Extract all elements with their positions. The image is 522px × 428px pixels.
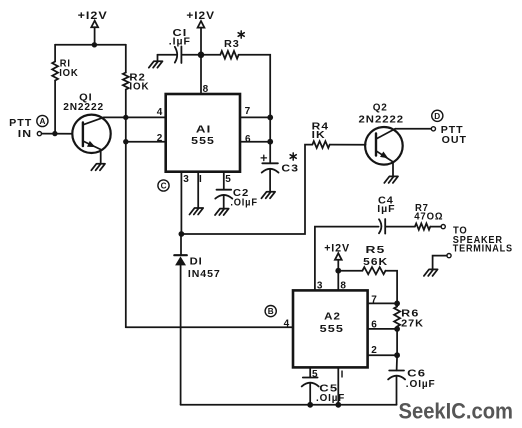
wire pin6 to pin2 rail [396,329,398,355]
label TO SPEAKER TERMINALS [453,225,513,254]
node junction R2/collector [123,115,128,120]
wire +12V rail top-left [55,44,126,46]
svg-text:2: 2 [157,133,163,144]
node junction pin6/R6 [394,326,400,332]
power +12V supply 3 arrow [335,253,342,260]
wire speaker ground terminal [433,256,447,270]
wire R5 to pin 7 rail [386,271,398,304]
terminal open circle speaker ground [447,254,451,258]
wire A1 pin 1 to ground [197,173,199,208]
capacitor C6 [388,371,405,380]
node junction pin7/R5/R6 [394,301,400,307]
ground C1 left [149,55,163,68]
resistor R1 [52,45,58,134]
wire A2 pin 2 [368,354,398,356]
svg-text:.OIµF: .OIµF [316,393,345,404]
resistor R1 value label [59,59,78,79]
resistor R6 value label [401,308,424,329]
svg-text:IOK: IOK [59,68,78,79]
power +12V supply 2 arrow [198,21,205,28]
ground Q2 emitter [384,176,398,183]
svg-text:I: I [199,174,202,185]
svg-text:C3: C3 [281,163,299,174]
ground Q1 emitter [91,164,105,171]
svg-text:.OIµF: .OIµF [406,379,436,390]
wire A2 pin3 riser to C4 [315,227,379,291]
svg-text:D: D [434,112,440,121]
svg-text:.OIµF: .OIµF [230,197,257,208]
svg-text:27K: 27K [401,319,424,330]
svg-text:IN: IN [18,129,32,140]
capacitor C5 value label [316,383,345,404]
transistor Q1 label [63,92,104,113]
resistor R4 value label [312,121,329,141]
power +12V supply 2 label [186,10,215,22]
node C circled letter [158,180,169,191]
wire C1 to pin8 node [181,54,220,56]
svg-text:+I2V: +I2V [324,242,350,254]
label PTT IN [9,118,32,140]
wire C2 to ground [223,195,225,208]
wire +12V stem 1 [94,27,96,45]
svg-text:7: 7 [245,106,251,117]
svg-text:.IµF: .IµF [169,37,191,48]
svg-text:OUT: OUT [442,135,467,146]
label PTT OUT [441,125,467,146]
svg-text:8: 8 [203,84,209,95]
wire C5 to bottom rail [309,383,311,405]
svg-text:R3: R3 [224,39,240,50]
power +12V supply 3 label [324,242,350,254]
resistor R4 [312,141,329,148]
node junction pin1/bottom rail [335,402,341,408]
transistor Q2 label [359,102,405,125]
capacitor C3 electrolytic [261,155,278,172]
wire A1 pin 8 [200,55,202,93]
resistor R7 value label [414,203,443,223]
op-amp U1: IC A1 555 box [166,94,240,172]
resistor R5 value label [363,245,388,268]
diode D1 value label [188,256,221,279]
node junction R2/pin2 [123,139,128,144]
svg-text:R5: R5 [366,245,386,256]
resistor R2 [123,45,129,328]
svg-text:IµF: IµF [377,204,395,215]
node junction pin2/C6 [394,352,400,358]
wire R3 to right rail [239,55,271,163]
svg-text:56K: 56K [363,257,388,268]
svg-text:TERMINALS: TERMINALS [453,244,513,255]
wire R5 left lead [338,270,362,272]
svg-text:3: 3 [183,174,189,185]
ground A1 pin 1 [190,208,204,215]
svg-text:555: 555 [320,324,344,335]
wire C4 to R7 [385,226,415,228]
node A terminal PTT IN [37,115,48,126]
resistor R3 [220,51,238,59]
capacitor C3 label [281,153,299,174]
node junction R1/base wire [52,131,57,136]
svg-text:Q2: Q2 [373,102,388,113]
wire A1 pin 7 [241,116,270,118]
wire +12V stem 3 to A2 pin 8 [337,260,339,291]
ground C3 [261,192,275,199]
IC A2 designator [320,312,344,335]
capacitor C4 [379,219,385,234]
IC A1 designator [191,125,215,147]
wire A2 pin 4 from R2 line [126,326,293,328]
svg-text:A: A [40,117,46,126]
svg-text:555: 555 [191,136,215,147]
wire A1 pin 6 [241,141,270,143]
wire C6 to bottom rail [396,376,398,405]
timer IC A2 555 box [293,290,368,367]
capacitor C6 value label [406,369,436,391]
transistor Q1 2N2222 [72,115,110,153]
node junction pin3/D1 [179,231,185,237]
wire bottom rail [181,404,397,406]
svg-text:47OΩ: 47OΩ [414,212,443,223]
svg-text:PTT: PTT [9,118,32,129]
capacitor C1 [175,46,182,63]
node junction C5/bottom rail [307,402,313,408]
svg-text:2N2222: 2N2222 [359,114,405,125]
svg-text:6: 6 [245,134,251,145]
node D circled letter [432,110,443,121]
svg-text:3: 3 [317,280,323,291]
wire pin2 junction to C6 [396,355,399,370]
wire pin3 junction to R4 riser [181,145,312,234]
svg-text:+I2V: +I2V [78,10,108,22]
node junction pin7/rail [267,115,273,121]
capacitor C5 [302,378,319,387]
capacitor C2 value label [230,188,257,208]
svg-text:DI: DI [190,256,203,267]
terminal open circle speaker hot [441,225,445,229]
capacitor C4 value label [377,195,395,214]
wire R4 to Q2 base [330,144,366,146]
resistor R5 [362,267,385,274]
wire C3 to ground [269,169,271,191]
resistor R7 [415,223,430,229]
svg-text:PTT: PTT [441,125,464,136]
capacitor C2 [215,190,232,199]
wire +12V stem 2 [200,28,202,55]
svg-text:IN457: IN457 [188,269,221,280]
svg-text:5: 5 [225,174,231,185]
node junction pin8/+12V/C1/R3 [198,52,205,59]
svg-text:A2: A2 [324,312,341,323]
node B circled letter [265,306,276,317]
node junction +12V/R5 [335,268,341,274]
ground C2 [215,209,229,216]
wire Q2 collector to PTT OUT [395,128,431,130]
svg-text:SeekIC.com: SeekIC.com [399,398,514,423]
svg-text:B: B [268,307,274,316]
transistor Q2 2N2222 [365,127,403,165]
wire Q1 collector to A1 pin 4 [104,116,164,118]
watermark SeekIC.com [399,398,514,423]
terminal open circle PTT OUT [431,127,435,131]
wire A1 pin 2 [126,141,165,143]
svg-text:C6: C6 [407,369,426,380]
wire PTT IN to Q1 base [42,133,72,135]
svg-text:AI: AI [196,125,212,136]
svg-text:C: C [161,182,167,191]
wire A2 pin 5 to C5 [309,367,311,377]
wire A1 pin 5 to C2 [223,173,225,190]
ground speaker [424,269,438,276]
svg-text:2N2222: 2N2222 [63,102,104,113]
svg-text:4: 4 [157,107,163,118]
wire R7 to terminal [430,226,441,228]
node junction rail/R1R2 [92,42,97,47]
svg-text:IK: IK [312,130,326,141]
svg-text:IOK: IOK [129,82,149,93]
diode D1 1N457 [174,234,187,405]
wire A2 pin 6 [368,328,398,330]
power +12V supply 1 label [78,10,108,22]
wire A2 pin 1 to bottom rail [337,367,339,404]
power +12V supply 1 arrow [91,21,98,28]
wire Q1 emitter drop [100,150,102,164]
wire ground to C1 [158,54,177,56]
wire Q2 emitter drop [392,162,394,177]
terminal open circle PTT IN [37,132,41,136]
node junction pin6/rail [267,139,273,145]
svg-text:I: I [341,369,344,380]
svg-text:8: 8 [340,280,346,291]
resistor R3 label [224,31,244,50]
resistor R2 value label [129,72,149,92]
wire A1 pin 3 down [180,173,182,234]
resistor R6 [394,303,400,329]
wire A2 pin 7 [368,302,398,304]
capacitor C1 value label [169,28,191,48]
